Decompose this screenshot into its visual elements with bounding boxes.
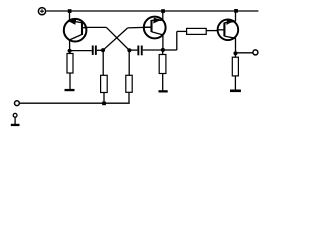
node T1 emitter junction — [68, 9, 72, 13]
ground (below R4) — [159, 90, 168, 92]
earth terminal symbol — [11, 113, 20, 126]
capacitor C2 — [137, 46, 163, 56]
wire T2 collector vertical — [162, 35, 164, 50]
resistor R2 (T2 base bias) — [101, 75, 108, 92]
node C2 / R3 junction — [127, 48, 131, 52]
transistor T1 — [64, 19, 88, 42]
wire C2 left lead — [129, 49, 137, 51]
wire cross-couple A (T1 base to C2 node) — [106, 27, 129, 50]
supply terminal + (positive) — [38, 8, 45, 15]
wire T1 collector vertical — [69, 40, 71, 51]
node T1 collector junction — [68, 49, 72, 53]
wire R3 top lead — [128, 50, 130, 75]
wire T1 base — [84, 26, 106, 28]
input terminal (bottom left) — [15, 101, 20, 106]
node T3 emitter junction — [234, 9, 238, 13]
wire R2 bottom lead — [103, 93, 105, 104]
resistor R1 (T1 collector load) — [67, 51, 73, 89]
resistor R3 (T1 base bias) — [126, 75, 132, 92]
node T2 emitter junction — [161, 9, 165, 13]
wire T2 emitter vertical — [162, 11, 164, 20]
transistor T2 — [144, 17, 166, 39]
wire to output terminal — [236, 52, 253, 54]
node output junction — [233, 51, 237, 55]
wire T2 base — [128, 26, 151, 29]
resistor R6 (output load) — [232, 53, 238, 89]
wire T1 emitter vertical — [69, 11, 71, 21]
wire T3 emitter vertical — [235, 11, 237, 21]
wire R2 top lead — [102, 50, 104, 75]
wire cross-couple B (C1 node to T2 base) — [103, 28, 128, 50]
capacitor C1 — [92, 46, 103, 55]
wire to R5 — [177, 30, 187, 32]
transistor T3 — [217, 19, 238, 40]
wire T1 collector to C1 — [70, 50, 92, 52]
resistor R5 (T3 base, horizontal) — [187, 28, 207, 34]
node T2 collector junction — [161, 48, 165, 52]
resistor R4 (T2 collector load) — [159, 50, 166, 91]
wire T3 collector vertical — [235, 38, 237, 53]
ground (below R6) — [230, 90, 241, 93]
node C1 / R2 / cross junction — [101, 48, 105, 52]
node bottom rail junction — [102, 102, 106, 106]
wire top rail — [46, 10, 258, 12]
wire corner vertical up — [176, 31, 178, 50]
wire T2 collector to coupling corner — [163, 49, 177, 51]
output terminal — [253, 50, 258, 55]
wire bottom rail — [19, 102, 129, 104]
wire R3 bottom lead — [128, 92, 130, 103]
wire R5 to T3 base — [206, 30, 217, 32]
ground (below R1) — [65, 89, 75, 91]
